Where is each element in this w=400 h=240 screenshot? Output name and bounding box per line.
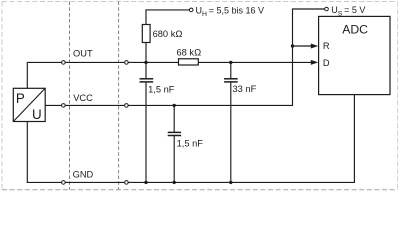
svg-text:1,5 nF: 1,5 nF [148, 84, 175, 94]
svg-text:680 kΩ: 680 kΩ [153, 29, 183, 39]
svg-text:GND: GND [73, 170, 94, 180]
svg-text:P: P [16, 91, 25, 106]
svg-text:VCC: VCC [73, 93, 93, 103]
svg-text:68 kΩ: 68 kΩ [177, 48, 202, 58]
svg-text:ADC: ADC [342, 23, 368, 37]
svg-text:OUT: OUT [73, 49, 93, 59]
svg-text:33 nF: 33 nF [233, 84, 257, 94]
svg-text:U: U [32, 107, 42, 122]
svg-text:R: R [323, 41, 330, 51]
svg-text:1,5 nF: 1,5 nF [177, 138, 204, 148]
svg-text:D: D [323, 58, 330, 68]
